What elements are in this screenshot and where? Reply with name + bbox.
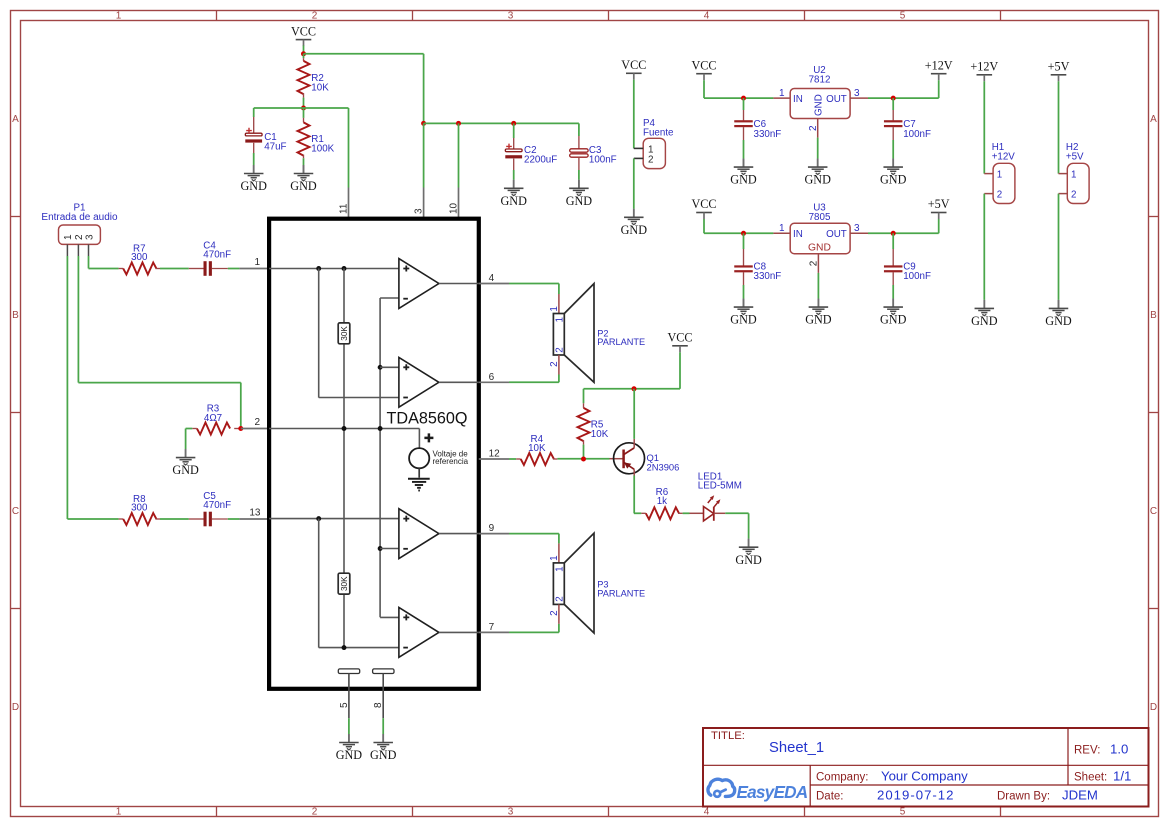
power port VCC (U2) xyxy=(691,58,716,80)
pin number 13 xyxy=(249,508,261,519)
wire pin 3 vertical xyxy=(423,123,425,218)
op-amp 1 xyxy=(399,259,479,309)
ground for C6 xyxy=(730,159,757,187)
wire C4 to IC pin1 xyxy=(228,268,269,270)
svg-text:3: 3 xyxy=(508,807,514,818)
pin number 1 xyxy=(254,257,260,268)
svg-text:OUT: OUT xyxy=(826,229,847,240)
svg-text:8: 8 xyxy=(373,702,384,708)
wire R4 to Q1 base xyxy=(557,458,623,460)
pin number 6 xyxy=(489,372,495,383)
svg-text:2: 2 xyxy=(312,11,318,22)
svg-text:EasyEDA: EasyEDA xyxy=(737,782,808,802)
wire R6 to LED xyxy=(683,512,690,514)
svg-text:4: 4 xyxy=(704,807,710,818)
wire rail pin3-pin10-C2-C3 xyxy=(424,122,579,124)
wire pin12 to R4 xyxy=(479,458,516,460)
wire inner vertical B 30K column xyxy=(343,269,345,648)
power port VCC (U3) xyxy=(691,197,716,219)
node R3 junction xyxy=(238,426,243,431)
svg-text:12: 12 xyxy=(489,449,501,460)
resistor R3 xyxy=(192,404,241,435)
power port VCC (right) xyxy=(667,331,692,353)
op-amp 3 xyxy=(399,509,479,559)
svg-text:GND: GND xyxy=(1045,314,1072,328)
svg-text:9: 9 xyxy=(489,523,495,534)
wire H1 pin2 to ground xyxy=(983,194,985,309)
node C2 junction xyxy=(511,121,516,126)
svg-text:GND: GND xyxy=(730,173,757,187)
svg-text:GND: GND xyxy=(971,314,998,328)
node C9 junction xyxy=(891,231,896,236)
svg-text:10K: 10K xyxy=(591,429,609,440)
power port VCC (P4) xyxy=(621,58,646,80)
voltage reference source xyxy=(409,433,469,477)
node C8 junction xyxy=(741,231,746,236)
node inner A1 xyxy=(316,266,321,271)
speaker P3 xyxy=(549,533,645,633)
resistor R7 xyxy=(119,244,160,275)
svg-text:2: 2 xyxy=(809,260,820,266)
svg-text:GND: GND xyxy=(621,223,648,237)
svg-text:GND: GND xyxy=(880,313,907,327)
capacitor C5 xyxy=(189,491,231,526)
svg-text:Sheet_1: Sheet_1 xyxy=(769,740,824,756)
svg-text:7: 7 xyxy=(489,622,495,633)
svg-text:5: 5 xyxy=(900,807,906,818)
svg-text:1: 1 xyxy=(63,234,74,240)
svg-text:5: 5 xyxy=(900,11,906,22)
svg-text:100nF: 100nF xyxy=(589,155,617,166)
EasyEDA logo xyxy=(708,779,808,802)
ground for C3 xyxy=(566,180,593,208)
node inner A2 xyxy=(316,516,321,521)
IC U1 TDA8560Q body xyxy=(269,219,479,689)
svg-text:1: 1 xyxy=(116,11,122,22)
wire amp2 plus feed xyxy=(380,366,399,368)
svg-text:1/1: 1/1 xyxy=(1113,768,1131,783)
wire P1 pin3 to R7 xyxy=(89,256,119,269)
ground for pin5 xyxy=(336,734,363,762)
svg-text:IN: IN xyxy=(793,94,803,105)
svg-text:30K: 30K xyxy=(340,326,349,341)
ground for R3 xyxy=(172,449,199,477)
pin number 4 xyxy=(489,273,495,284)
svg-text:100nF: 100nF xyxy=(903,129,931,140)
wire pin9 to P3 pin1 xyxy=(479,534,559,544)
node inner B3 xyxy=(342,645,347,650)
pin number 3 xyxy=(414,208,425,214)
svg-text:1: 1 xyxy=(779,223,785,234)
svg-text:+12V: +12V xyxy=(992,151,1016,162)
speaker P2 xyxy=(549,284,645,383)
node inner C2 xyxy=(378,426,383,431)
svg-text:+5V: +5V xyxy=(1048,60,1070,74)
wire U3 OUT to +5V xyxy=(868,219,939,233)
node inner C1 xyxy=(378,365,383,370)
power port +12V (H1) xyxy=(970,60,998,82)
svg-text:C: C xyxy=(12,506,19,517)
wire R3 to ground xyxy=(186,429,193,458)
wire VCC down xyxy=(584,352,681,389)
svg-text:Company:: Company: xyxy=(816,771,868,783)
ground for C7 xyxy=(880,159,907,187)
svg-text:JDEM: JDEM xyxy=(1062,787,1098,802)
svg-text:GND: GND xyxy=(240,179,267,193)
node R2/R1/C1 junction xyxy=(301,106,306,111)
svg-text:GND: GND xyxy=(880,173,907,187)
wire inner vertical D xyxy=(319,519,399,648)
wire P1 pin1 to R8 xyxy=(67,256,118,519)
svg-text:GND: GND xyxy=(172,463,199,477)
wire +12V to H1 pin1 xyxy=(983,81,985,173)
svg-text:B: B xyxy=(1150,310,1157,321)
wire pin5 to ground xyxy=(348,718,350,742)
svg-text:330nF: 330nF xyxy=(754,271,782,282)
title block xyxy=(703,728,1149,807)
pin number 8 xyxy=(373,702,384,708)
svg-text:470nF: 470nF xyxy=(203,500,231,511)
wire H2 pin2 to ground xyxy=(1058,194,1060,309)
connector H2 xyxy=(1059,142,1090,204)
svg-text:B: B xyxy=(12,310,19,321)
wire emitter to R6 xyxy=(634,476,641,514)
svg-text:6: 6 xyxy=(489,372,495,383)
svg-text:Sheet:: Sheet: xyxy=(1074,771,1107,783)
svg-text:2: 2 xyxy=(997,190,1002,201)
wire pin8 to ground xyxy=(382,718,384,742)
pin number 7 xyxy=(489,622,495,633)
pin number 12 xyxy=(489,449,501,460)
svg-text:TDA8560Q: TDA8560Q xyxy=(387,409,468,427)
wire pin 10 vertical xyxy=(458,123,460,218)
node inner B2 xyxy=(342,426,347,431)
svg-text:LED-5MM: LED-5MM xyxy=(698,481,742,492)
wire LED to ground xyxy=(725,513,748,547)
svg-text:7812: 7812 xyxy=(809,75,831,86)
ground for C8 xyxy=(730,299,757,327)
svg-text:GND: GND xyxy=(336,748,363,762)
svg-text:A: A xyxy=(12,114,19,125)
ground for C2 xyxy=(500,180,527,208)
svg-text:IN: IN xyxy=(793,229,803,240)
svg-text:470nF: 470nF xyxy=(203,250,231,261)
wire R7 to C4 xyxy=(160,268,189,270)
connector H1 xyxy=(984,142,1015,204)
svg-text:330nF: 330nF xyxy=(754,129,782,140)
svg-text:VCC: VCC xyxy=(291,24,316,38)
svg-text:5: 5 xyxy=(339,702,350,708)
svg-text:GND: GND xyxy=(805,313,832,327)
svg-text:2: 2 xyxy=(254,417,260,428)
wire pin 11 vertical xyxy=(348,108,350,219)
resistor R5 xyxy=(578,389,609,459)
svg-text:+5V: +5V xyxy=(1066,151,1084,162)
svg-text:GND: GND xyxy=(804,173,831,187)
wire VCC to P4 pin1 xyxy=(633,80,635,149)
pin number 5 xyxy=(339,702,350,708)
svg-text:Drawn By:: Drawn By: xyxy=(997,790,1050,802)
ground for H2 xyxy=(1045,300,1072,328)
svg-text:GND: GND xyxy=(500,194,527,208)
ground for C9 xyxy=(880,299,907,327)
svg-text:300: 300 xyxy=(131,503,148,514)
svg-text:1: 1 xyxy=(555,317,566,322)
node pin3 rail junction xyxy=(421,121,426,126)
svg-text:4: 4 xyxy=(704,11,710,22)
svg-text:OUT: OUT xyxy=(826,94,847,105)
svg-text:10K: 10K xyxy=(528,443,546,454)
wire R8 to C5 xyxy=(160,518,189,520)
wire corner down xyxy=(423,54,425,124)
ground of voltage reference xyxy=(408,479,430,491)
svg-text:2: 2 xyxy=(555,596,566,601)
capacitor C4 xyxy=(189,241,231,276)
wire P1 pin2 to R3 node xyxy=(78,256,240,429)
node collector junction xyxy=(632,386,637,391)
svg-text:10: 10 xyxy=(449,202,460,214)
svg-text:+12V: +12V xyxy=(970,60,998,74)
capacitor C1 xyxy=(245,108,286,174)
transistor Q1 2N3906 xyxy=(614,439,680,476)
wire U3 GND pin to ground xyxy=(817,273,819,307)
svg-text:300: 300 xyxy=(131,252,148,263)
svg-text:4: 4 xyxy=(489,273,495,284)
svg-text:2: 2 xyxy=(312,807,318,818)
svg-text:3: 3 xyxy=(84,234,95,240)
wire U2 OUT to +12V xyxy=(868,80,939,98)
svg-text:7805: 7805 xyxy=(809,212,831,223)
resistor 30K lower xyxy=(338,573,350,594)
node C7 junction xyxy=(891,96,896,101)
svg-text:1: 1 xyxy=(254,257,260,268)
ground for U2 xyxy=(804,159,831,187)
pin number 2 xyxy=(254,417,260,428)
svg-text:D: D xyxy=(1150,702,1157,713)
resistor R2 xyxy=(298,54,330,108)
svg-text:2N3906: 2N3906 xyxy=(647,462,680,473)
ground for LED xyxy=(735,539,762,567)
node C6 junction xyxy=(741,96,746,101)
svg-text:1: 1 xyxy=(116,807,122,818)
pin number 10 xyxy=(449,202,460,214)
wire P2 pin2 to pin6 xyxy=(479,375,559,383)
svg-text:1: 1 xyxy=(997,169,1002,180)
svg-text:GND: GND xyxy=(370,748,397,762)
svg-text:10K: 10K xyxy=(311,83,329,94)
op-amp 4 xyxy=(399,608,479,658)
regulator U3 7805 xyxy=(773,203,868,273)
svg-text:D: D xyxy=(12,702,19,713)
ground for pin8 xyxy=(370,734,397,762)
svg-text:2: 2 xyxy=(555,347,566,352)
IC pad pin8 xyxy=(373,669,394,718)
node inner C3 xyxy=(378,546,383,551)
capacitor C9 xyxy=(884,233,931,307)
resistor R6 xyxy=(641,487,682,519)
svg-text:PARLANTE: PARLANTE xyxy=(597,337,645,347)
wire inner vertical A xyxy=(319,269,399,398)
svg-text:C: C xyxy=(1150,506,1157,517)
svg-text:1.0: 1.0 xyxy=(1110,742,1128,757)
wire pin13 inner xyxy=(269,518,399,520)
svg-text:VCC: VCC xyxy=(691,197,716,211)
IC name TDA8560Q xyxy=(387,409,468,427)
svg-text:30K: 30K xyxy=(340,576,349,591)
svg-text:VCC: VCC xyxy=(667,331,692,345)
svg-text:GND: GND xyxy=(735,553,762,567)
svg-text:1: 1 xyxy=(549,306,560,311)
svg-text:VCC: VCC xyxy=(621,58,646,72)
svg-text:2: 2 xyxy=(549,361,560,366)
resistor 30K upper xyxy=(338,323,350,344)
wire P3 pin2 to pin7 xyxy=(479,624,559,633)
svg-text:100K: 100K xyxy=(311,144,334,155)
svg-text:13: 13 xyxy=(249,508,261,519)
power port +5V (H2) xyxy=(1048,60,1070,82)
svg-text:PARLANTE: PARLANTE xyxy=(597,588,645,598)
svg-text:1: 1 xyxy=(1071,169,1076,180)
svg-text:2019-07-12: 2019-07-12 xyxy=(877,787,954,802)
svg-text:1: 1 xyxy=(549,555,560,560)
svg-text:2: 2 xyxy=(648,155,654,166)
svg-text:A: A xyxy=(1150,114,1157,125)
svg-text:1: 1 xyxy=(779,88,785,99)
resistor R1 xyxy=(298,108,335,174)
svg-text:Your Company: Your Company xyxy=(881,768,968,783)
LED1 LED-5MM xyxy=(690,472,742,521)
svg-text:11: 11 xyxy=(339,203,350,214)
capacitor C8 xyxy=(734,233,781,307)
wire VCC to node xyxy=(303,45,305,53)
wire C5 to IC pin13 xyxy=(228,518,269,520)
power port +12V (U2) xyxy=(925,58,953,80)
svg-text:GND: GND xyxy=(290,179,317,193)
svg-text:3: 3 xyxy=(854,88,860,99)
svg-text:GND: GND xyxy=(808,242,831,253)
wire node to pin3 corner xyxy=(304,53,424,55)
svg-text:GND: GND xyxy=(566,194,593,208)
node R5 junction xyxy=(581,457,586,462)
svg-text:VCC: VCC xyxy=(691,58,716,72)
ground for H1 xyxy=(971,300,998,328)
svg-text:Entrada de audio: Entrada de audio xyxy=(41,212,118,223)
wire VCC to U3 IN xyxy=(704,219,773,233)
svg-text:100nF: 100nF xyxy=(903,271,931,282)
svg-text:3: 3 xyxy=(508,11,514,22)
wire collector to VCC node xyxy=(633,389,635,439)
capacitor C2 xyxy=(505,123,557,188)
svg-text:47uF: 47uF xyxy=(264,142,286,153)
wire P4 pin2 to ground xyxy=(633,158,635,217)
svg-text:3: 3 xyxy=(854,223,860,234)
svg-text:1: 1 xyxy=(555,566,566,571)
power port +5V (U3) xyxy=(928,197,950,219)
resistor R8 xyxy=(119,494,160,525)
svg-text:Fuente: Fuente xyxy=(643,127,674,138)
op-amp 2 xyxy=(399,357,479,407)
svg-text:+12V: +12V xyxy=(925,58,953,72)
pin number 9 xyxy=(489,523,495,534)
wire pin4 to P2 pin1 xyxy=(479,284,559,295)
wire amp3 minus feed xyxy=(380,548,399,550)
node VCC junction xyxy=(301,51,306,56)
wire pin2 inner xyxy=(269,429,419,449)
ground for P4 xyxy=(621,209,648,237)
connector P1 xyxy=(41,202,118,256)
svg-text:referencia: referencia xyxy=(433,457,469,466)
svg-text:+5V: +5V xyxy=(928,197,950,211)
wire node to IC pin2 xyxy=(241,428,269,430)
regulator U2 7812 xyxy=(773,65,868,138)
wire pin1 inner xyxy=(269,268,399,270)
ground for R1 xyxy=(290,165,317,193)
svg-text:2: 2 xyxy=(1071,190,1076,201)
ground for C1 xyxy=(240,165,267,193)
node pin10 junction xyxy=(456,121,461,126)
power port VCC (main) xyxy=(291,24,316,46)
capacitor C7 xyxy=(884,98,931,167)
IC pad pin5 xyxy=(338,669,359,718)
node inner B1 xyxy=(342,266,347,271)
wire C1-R1-pin11 xyxy=(254,107,349,109)
pin number 11 xyxy=(339,203,350,214)
svg-text:2: 2 xyxy=(808,125,819,131)
wire inner vertical C xyxy=(380,298,399,617)
svg-text:GND: GND xyxy=(730,313,757,327)
capacitor C3 xyxy=(570,123,617,188)
svg-text:4Ω7: 4Ω7 xyxy=(204,413,222,424)
wire +5V to H2 pin1 xyxy=(1058,81,1060,173)
ground for U3 xyxy=(805,299,832,327)
svg-text:2200uF: 2200uF xyxy=(524,155,557,166)
connector P4 xyxy=(634,118,674,168)
wire U2 GND pin to ground xyxy=(817,138,819,168)
svg-text:1k: 1k xyxy=(657,496,667,507)
resistor R4 xyxy=(516,434,557,465)
svg-text:3: 3 xyxy=(414,208,425,214)
svg-text:Date:: Date: xyxy=(816,790,844,802)
capacitor C6 xyxy=(734,98,781,167)
svg-text:2: 2 xyxy=(549,610,560,615)
wire VCC to U2 IN xyxy=(704,80,773,98)
svg-text:TITLE:: TITLE: xyxy=(711,730,745,742)
svg-text:REV:: REV: xyxy=(1074,745,1100,757)
svg-text:GND: GND xyxy=(814,94,825,116)
